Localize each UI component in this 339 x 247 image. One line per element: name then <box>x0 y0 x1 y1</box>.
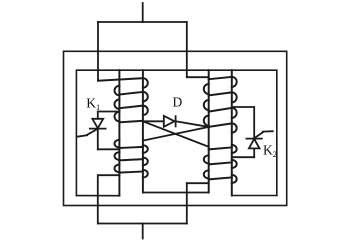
left core right rail <box>142 70 144 192</box>
thyristor K1 anode wire <box>98 111 120 113</box>
center bottom vertical wire <box>186 183 188 223</box>
winding N4 lower-right (cross wires and turn loops) <box>204 145 237 183</box>
winding N3 upper-right (cross wires and turn loops) <box>204 77 237 133</box>
wire jog to right core top <box>187 76 209 78</box>
middle box bottom wire <box>143 192 209 194</box>
right core left rail <box>208 70 210 192</box>
thyristor K2 <box>246 131 272 157</box>
thyristor K1 <box>77 112 105 150</box>
bottom terminal stub <box>142 224 144 239</box>
winding N2 lower-left (cross wires and turn loops) <box>114 140 147 178</box>
winding N1 upper-left (cross wires and turn loops) <box>98 78 148 122</box>
outer box <box>64 51 287 205</box>
right core right rail <box>231 70 233 195</box>
wire jog from right core bottom <box>187 182 209 184</box>
left feed wire <box>97 22 99 81</box>
K1 cathode wire to core <box>98 148 120 150</box>
top bus wire <box>98 21 187 23</box>
K2 cathode return wire <box>232 156 254 158</box>
diode D line and symbol <box>143 116 209 127</box>
diagonal wire A <box>143 121 209 147</box>
center feed wire <box>186 22 188 77</box>
svg-text:K1: K1 <box>86 96 100 113</box>
svg-text:K2: K2 <box>263 143 277 160</box>
diagonal wire B <box>143 127 209 141</box>
thyristor K2 top wire <box>232 107 254 138</box>
left core left rail <box>118 70 120 196</box>
bottom collector wire <box>98 223 187 225</box>
top terminal stub <box>142 3 144 22</box>
winding N2 exit wire <box>98 175 120 223</box>
inner box (left edge, top edge, right edge, bottom side segments) <box>76 70 276 196</box>
svg-text:D: D <box>173 95 183 110</box>
